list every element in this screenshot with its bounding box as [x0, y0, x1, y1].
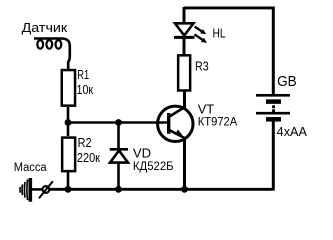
transistor VT KT972A: [158, 106, 193, 141]
node junction base-R1: [65, 119, 72, 126]
wire top rail from LED column to battery: [184, 6, 273, 9]
wire R1 bottom to R2 top through base node: [67, 107, 70, 136]
svg-text:4хАА: 4хАА: [277, 125, 308, 139]
LED HL diode symbol: [174, 23, 195, 37]
svg-text:220к: 220к: [77, 150, 100, 165]
battery GB: [256, 95, 290, 119]
node junction base-VD: [115, 119, 122, 126]
wire transistor emitter to bottom rail: [183, 137, 186, 189]
LED emission arrow 1: [195, 27, 207, 35]
svg-text:R1: R1: [77, 67, 89, 82]
node junction bottom-VD: [115, 186, 122, 193]
svg-text:R3: R3: [195, 59, 209, 74]
diode VD KD522B: [110, 149, 128, 162]
wire R3 to transistor collector: [183, 92, 186, 109]
LED emission arrow 2: [194, 34, 207, 43]
svg-text:КД522Б: КД522Б: [133, 160, 174, 173]
wire battery column upper: [272, 7, 275, 96]
svg-text:КТ972А: КТ972А: [198, 115, 238, 129]
svg-text:R2: R2: [78, 135, 92, 150]
node junction bottom-emitter: [181, 186, 188, 193]
wire chassis to connector: [32, 188, 43, 191]
svg-text:GB: GB: [277, 74, 297, 90]
wire battery column lower: [272, 122, 275, 191]
svg-text:10к: 10к: [77, 82, 94, 97]
wire R2 bottom to bottom rail: [67, 172, 70, 189]
wire VD anode to bottom rail: [117, 162, 120, 189]
svg-text:Масса: Масса: [14, 162, 47, 174]
resistor R1: [62, 70, 75, 106]
svg-text:Датчик: Датчик: [22, 20, 68, 35]
resistor R2: [62, 138, 75, 172]
connector plug symbol: [39, 181, 53, 198]
svg-text:HL: HL: [213, 25, 226, 40]
wire LED cathode to R3: [183, 38, 186, 55]
inductor sensor coil: [34, 39, 70, 71]
ground chassis symbol: [20, 178, 30, 202]
wire LED anode from top rail: [183, 7, 186, 24]
wire base rail from R1/R2 node to transistor base: [68, 121, 168, 124]
wire bottom rail: [50, 188, 274, 191]
wire VD cathode from base rail: [117, 123, 120, 151]
node junction bottom-R2: [65, 186, 72, 193]
svg-text:VD: VD: [133, 145, 151, 160]
resistor R3: [178, 55, 190, 90]
